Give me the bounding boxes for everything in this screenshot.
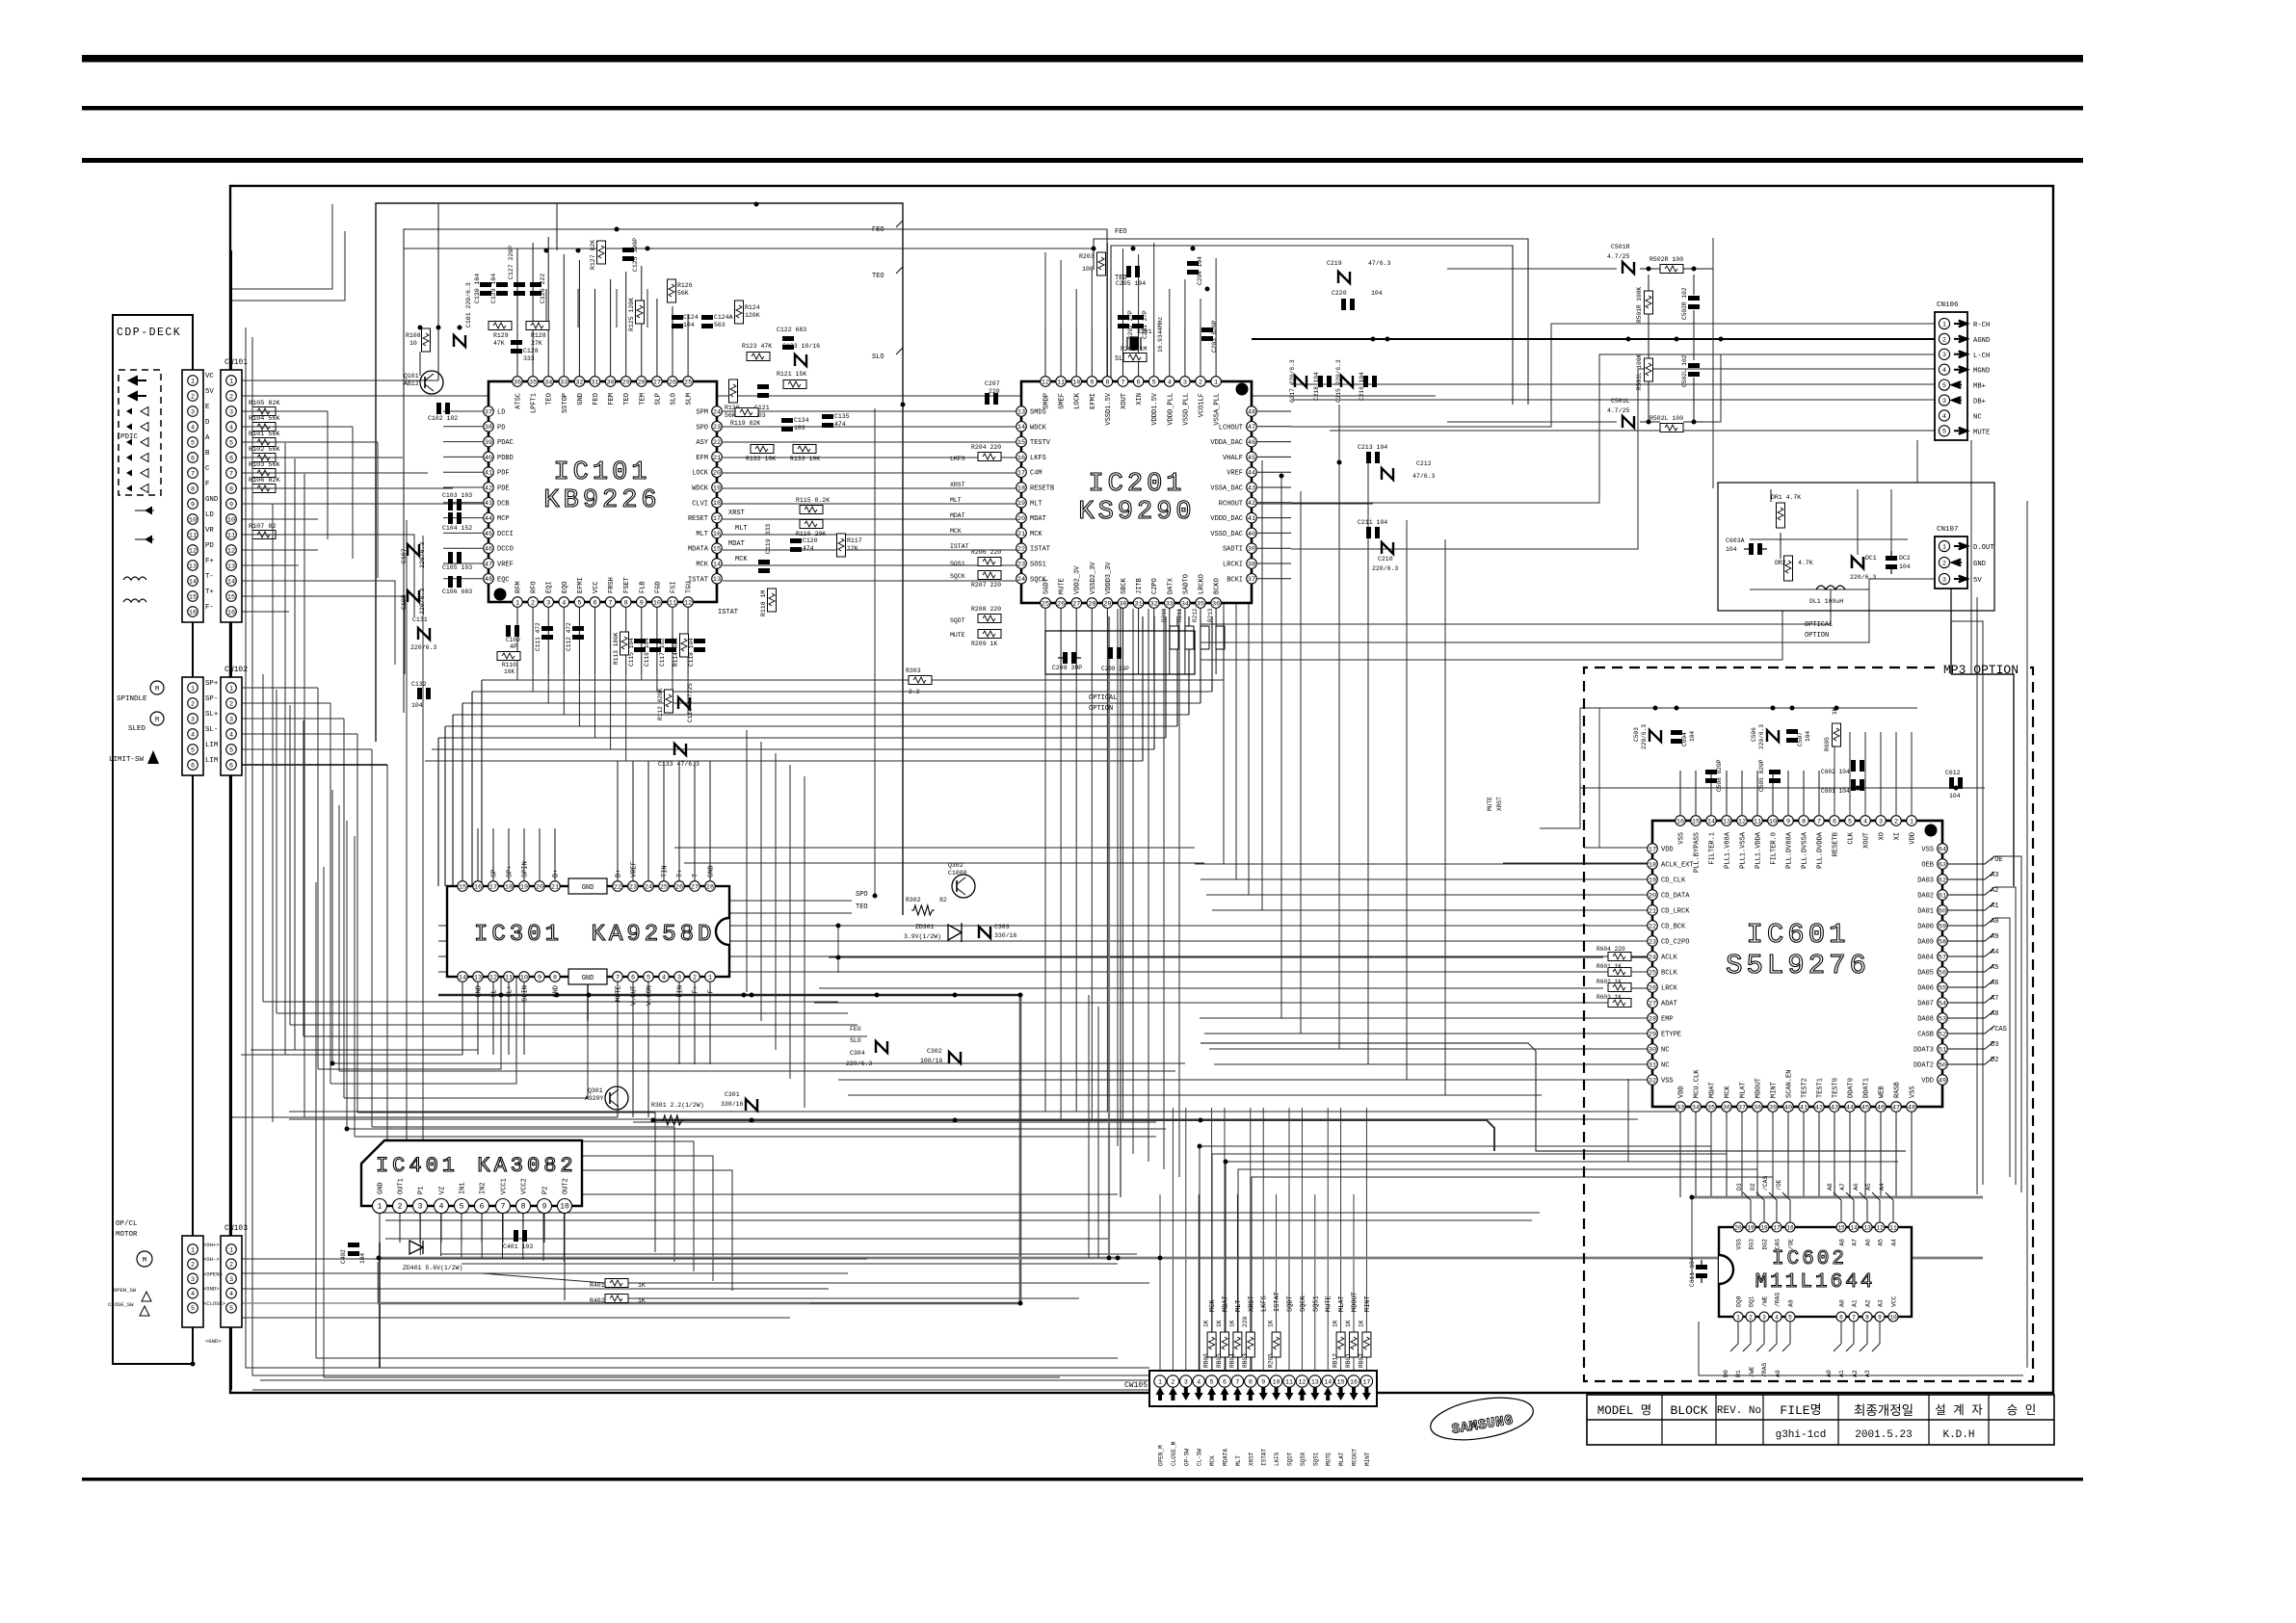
diode ZD301 [948, 925, 962, 940]
svg-text:VCC1: VCC1 [501, 1178, 509, 1194]
svg-text:16: 16 [1350, 1378, 1358, 1385]
svg-text:VDDD_PLL: VDDD_PLL [1167, 393, 1174, 426]
svg-text:C302: C302 [927, 1048, 942, 1055]
svg-text:C118 104: C118 104 [688, 638, 695, 667]
svg-text:33: 33 [1166, 600, 1174, 608]
wire IC301 top pins up [462, 828, 463, 880]
svg-text:8: 8 [1802, 818, 1806, 825]
wire IC601 right column to IC602 [1994, 856, 2021, 1192]
svg-text:8: 8 [1105, 379, 1109, 386]
resistor R132 10K [751, 445, 774, 454]
svg-text:TEO: TEO [856, 903, 868, 911]
svg-text:SQCK: SQCK [1300, 1295, 1307, 1312]
svg-text:FEO: FEO [1115, 228, 1127, 236]
svg-text:MDAT: MDAT [1709, 1082, 1717, 1098]
svg-text:C4M: C4M [1030, 470, 1042, 478]
svg-text:LKFS: LKFS [950, 456, 965, 462]
outer schematic frame [230, 186, 2053, 1393]
svg-text:R105 82K: R105 82K [249, 400, 281, 407]
svg-text:DDAT1: DDAT1 [1863, 1078, 1871, 1098]
wire CN101 R10x continuations [276, 410, 328, 412]
svg-text:4: 4 [191, 731, 195, 739]
svg-text:3: 3 [229, 716, 233, 723]
svg-text:38: 38 [1248, 561, 1255, 568]
capacitor C502R 102 [1688, 296, 1700, 301]
svg-text:CL-SW: CL-SW [1197, 1449, 1203, 1466]
svg-text:GND: GND [577, 393, 585, 406]
connector CN101 (dual column 16p) [182, 370, 203, 622]
svg-text:REV. No: REV. No [1717, 1405, 1761, 1417]
svg-text:T+: T+ [677, 870, 685, 877]
svg-text:LCHOUT: LCHOUT [1219, 424, 1243, 432]
svg-text:15: 15 [1017, 439, 1025, 447]
svg-text:43: 43 [485, 500, 492, 508]
svg-text:11: 11 [1754, 818, 1761, 825]
svg-text:DA05: DA05 [1917, 970, 1934, 978]
bus thick bottom long [289, 1111, 1676, 1113]
svg-text:A1: A1 [1991, 903, 1998, 910]
svg-text:12: 12 [1738, 818, 1746, 825]
svg-text:3: 3 [191, 408, 195, 416]
svg-text:MDAT: MDAT [728, 540, 745, 548]
PDIC photodiode array [129, 377, 146, 384]
transistor Q302 C1008 [952, 875, 975, 898]
svg-text:13: 13 [1017, 408, 1025, 416]
svg-text:1: 1 [191, 378, 195, 385]
svg-text:24: 24 [1017, 576, 1025, 584]
svg-text:SP+: SP+ [507, 865, 515, 877]
resistor R601 1K [1608, 968, 1631, 977]
svg-text:39: 39 [1248, 546, 1255, 554]
svg-text:VDD2_3V: VDD2_3V [1074, 565, 1082, 594]
resistor R114 68K [680, 634, 689, 657]
svg-text:1K: 1K [1345, 1320, 1352, 1327]
svg-text:SMEF: SMEF [1059, 393, 1067, 409]
svg-text:XO: XO [1879, 832, 1887, 840]
monitor diode D2 [145, 536, 152, 544]
svg-text:4: 4 [1942, 367, 1946, 374]
capacitor C102 102 [436, 403, 441, 414]
svg-text:A1: A1 [1838, 1370, 1845, 1377]
svg-text:220/6.3: 220/6.3 [1641, 724, 1648, 749]
svg-text:28: 28 [1649, 1015, 1656, 1023]
svg-text:6: 6 [229, 455, 233, 462]
capacitor C508 820P [1705, 770, 1717, 774]
svg-text:EQC: EQC [497, 576, 510, 584]
svg-text:C211 104: C211 104 [1358, 519, 1387, 526]
svg-text:C501R: C501R [1611, 244, 1630, 250]
svg-text:C131: C131 [412, 616, 428, 623]
svg-text:CW105: CW105 [1124, 1381, 1148, 1390]
svg-text:DA01: DA01 [1917, 908, 1934, 916]
svg-text:PDE: PDE [497, 485, 510, 493]
svg-text:16: 16 [474, 883, 482, 891]
svg-text:MB+: MB+ [1973, 383, 1986, 391]
resistor R502R 100 [1660, 265, 1683, 274]
svg-text:SPINDLE: SPINDLE [117, 695, 147, 703]
svg-text:56K: 56K [725, 412, 736, 419]
svg-text:ATSC: ATSC [515, 393, 523, 409]
svg-text:2: 2 [1942, 560, 1946, 566]
capacitor C105 103 [448, 552, 453, 563]
svg-text:17: 17 [1362, 1378, 1370, 1385]
capacitor C210 220/6.3 [1382, 542, 1393, 554]
svg-text:5: 5 [647, 974, 650, 982]
svg-text:A: A [205, 434, 210, 442]
svg-text:22: 22 [614, 883, 621, 891]
svg-text:VDD: VDD [1921, 1078, 1934, 1086]
resistor R107 82 [252, 531, 276, 539]
svg-text:5: 5 [229, 746, 233, 754]
svg-text:C611 104: C611 104 [1689, 1257, 1696, 1287]
svg-text:R116 20K: R116 20K [796, 531, 826, 537]
resistor R129 47K [488, 322, 512, 330]
svg-text:GND: GND [476, 985, 484, 998]
resistor R123 47K [747, 353, 770, 361]
CDP-DECK box [113, 315, 193, 1364]
svg-text:<OPEN>: <OPEN> [203, 1270, 223, 1277]
svg-text:R209 1K: R209 1K [971, 641, 997, 647]
svg-text:ISTAT: ISTAT [950, 543, 969, 550]
svg-text:DL1 100uH: DL1 100uH [1809, 598, 1843, 605]
svg-text:15: 15 [1837, 1224, 1845, 1231]
svg-text:V.OUT: V.OUT [631, 985, 639, 1006]
svg-text:7: 7 [191, 470, 195, 478]
svg-text:4.7/25: 4.7/25 [1607, 407, 1630, 414]
wire IC601 left horizontals [1195, 863, 1648, 865]
svg-text:2: 2 [1942, 336, 1946, 343]
svg-text:DATX: DATX [1167, 577, 1174, 594]
svg-text:P1: P1 [418, 1187, 426, 1194]
svg-text:CASB: CASB [1917, 1032, 1934, 1039]
svg-text:R102 56K: R102 56K [249, 446, 281, 454]
svg-text:R113 180K: R113 180K [613, 632, 620, 665]
capacitor C202 27P [1118, 315, 1129, 320]
svg-text:100: 100 [1082, 266, 1094, 273]
svg-text:CN107: CN107 [1937, 526, 1959, 534]
svg-text:2: 2 [398, 1202, 403, 1211]
wire bottom extra rails [376, 1193, 1118, 1195]
svg-text:3: 3 [1183, 379, 1187, 386]
capacitor C126 222 [530, 282, 541, 287]
svg-text:A3: A3 [1878, 1299, 1885, 1307]
svg-text:28: 28 [1088, 600, 1095, 608]
svg-text:6: 6 [480, 1202, 485, 1211]
svg-text:R207 220: R207 220 [971, 582, 1001, 589]
svg-text:GND: GND [205, 496, 219, 504]
wire CN105 verticals [1159, 1194, 1161, 1371]
svg-text:EQO: EQO [562, 581, 569, 593]
svg-text:1: 1 [515, 599, 519, 607]
resistor R124 120K [735, 301, 744, 324]
svg-text:T-: T- [693, 870, 700, 877]
svg-text:53: 53 [1939, 1015, 1946, 1023]
svg-text:설 계 자: 설 계 자 [1935, 1403, 1983, 1418]
svg-text:E: E [205, 404, 210, 411]
svg-text:VDDA_DAC: VDDA_DAC [1210, 439, 1243, 447]
svg-text:DCB: DCB [497, 500, 510, 508]
svg-text:NC: NC [1661, 1047, 1669, 1055]
svg-text:MUTE: MUTE [950, 632, 965, 639]
svg-text:C301: C301 [725, 1091, 740, 1098]
resistor R112 820K [665, 690, 673, 713]
svg-text:VSSA_PLL: VSSA_PLL [1214, 393, 1222, 426]
capacitor C216 104 [1363, 376, 1368, 387]
svg-text:g3hi-1cd: g3hi-1cd [1776, 1429, 1827, 1441]
svg-text:4: 4 [1942, 413, 1946, 420]
svg-text:R126: R126 [677, 282, 693, 289]
svg-text:7: 7 [229, 470, 233, 478]
svg-text:12: 12 [1876, 1224, 1884, 1231]
svg-text:MDAT: MDAT [1030, 515, 1046, 523]
svg-text:37: 37 [1738, 1104, 1746, 1112]
svg-text:FEO: FEO [872, 226, 884, 234]
svg-text:TEO: TEO [623, 393, 631, 406]
svg-text:BCKO: BCKO [1214, 578, 1222, 594]
IC101 block border box [376, 203, 903, 915]
svg-text:CLOSE_SW: CLOSE_SW [108, 1301, 134, 1308]
wire rails above IC401 [332, 1062, 1185, 1064]
svg-text:TEST0: TEST0 [1833, 1078, 1840, 1098]
svg-text:4: 4 [439, 1202, 444, 1211]
svg-text:EFMI: EFMI [577, 577, 585, 593]
svg-text:MOTOR: MOTOR [116, 1231, 138, 1239]
svg-text:XOUT: XOUT [1121, 393, 1128, 409]
svg-text:21: 21 [551, 883, 559, 891]
svg-text:MUTE: MUTE [1973, 429, 1990, 436]
svg-text:220: 220 [1242, 1317, 1249, 1327]
svg-text:TESTV: TESTV [1030, 439, 1051, 447]
svg-text:Q302: Q302 [948, 862, 963, 869]
svg-text:47/6.3: 47/6.3 [1368, 260, 1391, 267]
svg-text:<GND>: <GND> [203, 1286, 220, 1293]
capacitor C125 390P [622, 248, 634, 252]
svg-text:34: 34 [544, 379, 552, 386]
samsung logo [1427, 1391, 1536, 1447]
svg-text:7: 7 [1817, 818, 1821, 825]
svg-text:R204 220: R204 220 [971, 444, 1001, 451]
svg-text:1K: 1K [1228, 1320, 1235, 1327]
svg-text:220/6.3: 220/6.3 [419, 542, 426, 568]
wire bottom frame channel [380, 1357, 1118, 1359]
svg-text:VCC2: VCC2 [521, 1178, 529, 1194]
svg-text:12K: 12K [847, 545, 858, 552]
wire under-IC301 horizontals [263, 1001, 838, 1003]
svg-text:58: 58 [1939, 938, 1946, 946]
svg-text:C108: C108 [401, 594, 408, 610]
svg-text:SL-: SL- [205, 726, 218, 734]
svg-text:VCC: VCC [1891, 1296, 1898, 1307]
svg-text:R106 82K: R106 82K [249, 477, 281, 484]
svg-text:MUTE: MUTE [616, 985, 623, 1002]
svg-text:A6: A6 [1853, 1183, 1860, 1191]
bus thick 1243 [1692, 1196, 1983, 1199]
capacitor C204 104 [1187, 261, 1199, 266]
svg-text:VSSD_DAC: VSSD_DAC [1210, 531, 1243, 538]
svg-text:VSS: VSS [1678, 832, 1686, 845]
svg-text:C219: C219 [1327, 260, 1342, 267]
svg-text:19: 19 [1649, 877, 1656, 884]
svg-text:MCK: MCK [1725, 1086, 1732, 1098]
svg-text:C135: C135 [834, 413, 850, 420]
svg-text:12: 12 [684, 599, 692, 607]
svg-text:13: 13 [227, 563, 235, 570]
svg-text:CW101: CW101 [224, 358, 248, 367]
svg-text:13: 13 [474, 974, 482, 982]
capacitor C212 47/6.3 [1382, 468, 1393, 480]
svg-text:R101 56K: R101 56K [249, 431, 281, 438]
svg-text:R401: R401 [590, 1282, 605, 1289]
svg-text:LKFS: LKFS [1274, 1452, 1280, 1466]
svg-text:MINT: MINT [1771, 1082, 1779, 1098]
svg-text:10: 10 [520, 974, 528, 982]
svg-text:104: 104 [1805, 731, 1811, 742]
svg-text:DQ1: DQ1 [1749, 1296, 1755, 1307]
wire ic101 left pin stubs [443, 410, 483, 412]
svg-text:R502L 100: R502L 100 [1649, 415, 1683, 422]
svg-text:220/6.3: 220/6.3 [410, 644, 436, 651]
svg-text:5V: 5V [205, 388, 214, 396]
wire cn107 links [1201, 579, 1935, 642]
svg-text:C303: C303 [994, 924, 1010, 930]
svg-text:KA9258D: KA9258D [592, 922, 716, 948]
svg-text:M: M [155, 686, 159, 694]
svg-text:8: 8 [553, 974, 557, 982]
svg-text:13: 13 [1723, 818, 1730, 825]
svg-text:R601 1K: R601 1K [1597, 963, 1622, 970]
svg-text:LOCK: LOCK [692, 470, 709, 478]
svg-text:DR2: DR2 [1775, 560, 1786, 566]
svg-text:VSS: VSS [1661, 1078, 1674, 1086]
svg-text:C127 220P: C127 220P [508, 246, 515, 279]
svg-text:A6: A6 [1865, 1239, 1872, 1246]
svg-text:XOUT: XOUT [1863, 832, 1871, 849]
svg-text:VDDD3_3V: VDDD3_3V [1105, 562, 1113, 594]
resistor R208 220 [978, 615, 1001, 623]
svg-text:13: 13 [713, 576, 721, 584]
svg-text:MINT: MINT [1364, 1452, 1371, 1466]
wire mid bundle drops right [1223, 616, 1225, 680]
svg-text:C401 103: C401 103 [503, 1243, 533, 1250]
svg-text:C: C [205, 465, 210, 473]
svg-text:33: 33 [1676, 1104, 1684, 1112]
resistor R133 10K [793, 445, 816, 454]
resistor R128 27K [526, 322, 549, 330]
wire ic101 bottom pins to mid bundle [516, 674, 518, 680]
svg-text:RCHOUT: RCHOUT [1219, 500, 1243, 508]
svg-text:R605: R605 [1824, 737, 1831, 751]
svg-text:1: 1 [1910, 818, 1913, 825]
svg-text:C103 103: C103 103 [442, 492, 472, 499]
resistors R101-R106 [252, 407, 276, 416]
svg-text:SSTOP: SSTOP [562, 393, 569, 413]
svg-text:WDCK: WDCK [692, 485, 709, 493]
svg-text:C508 820P: C508 820P [1716, 759, 1723, 792]
svg-text:ISTAT: ISTAT [688, 576, 708, 584]
IC201 block top box [1094, 239, 1528, 405]
svg-text:10: 10 [227, 516, 235, 524]
svg-text:C207: C207 [985, 380, 1000, 387]
resistor R303 2.2 [909, 676, 932, 685]
svg-text:RFM: RFM [515, 581, 523, 593]
svg-text:SLO: SLO [671, 393, 678, 406]
svg-text:1: 1 [1214, 379, 1218, 386]
svg-text:Q101: Q101 [404, 373, 419, 380]
coil F- [123, 599, 146, 602]
svg-text:C104 152: C104 152 [442, 525, 472, 532]
svg-text:MUTE: MUTE [1326, 1296, 1333, 1312]
svg-text:KS9290: KS9290 [1078, 498, 1195, 527]
svg-text:1: 1 [191, 685, 195, 693]
capacitor C215 220/6.3 [1341, 376, 1353, 387]
svg-text:16: 16 [1017, 455, 1025, 462]
svg-text:6: 6 [1839, 1314, 1843, 1321]
top rule bar 2 [82, 106, 2083, 111]
capacitor C203 820P [1201, 327, 1213, 332]
svg-text:SPO: SPO [696, 424, 708, 432]
svg-text:34: 34 [1692, 1104, 1700, 1112]
capacitor C128 333 [511, 340, 522, 345]
svg-text:8: 8 [521, 1202, 526, 1211]
svg-text:14: 14 [1850, 1224, 1858, 1231]
svg-text:4: 4 [1863, 818, 1867, 825]
svg-text:EFM: EFM [696, 455, 708, 462]
wire mid horizontal bundle [482, 679, 1224, 681]
wire IC201 bottom pins down [1044, 609, 1046, 674]
capacitor C130 104 [480, 282, 491, 287]
svg-text:14: 14 [713, 561, 721, 568]
transistor Q301 A928Y [605, 1086, 628, 1110]
svg-text:R303: R303 [906, 668, 921, 674]
svg-text:R103 56K: R103 56K [249, 461, 281, 469]
capacitor C201 27P [1132, 315, 1144, 320]
svg-text:11: 11 [1057, 379, 1065, 386]
svg-text:SLIN: SLIN [522, 985, 530, 1002]
wire ic101 top caps [545, 289, 547, 327]
svg-text:VDD: VDD [1678, 1086, 1686, 1098]
svg-text:VCO1LF: VCO1LF [1199, 393, 1206, 417]
svg-text:C204 104: C204 104 [1197, 256, 1203, 285]
svg-text:5: 5 [577, 599, 581, 607]
capacitor C103 103 [448, 499, 453, 510]
svg-text:ETYPE: ETYPE [1661, 1032, 1681, 1039]
svg-text:ACLK: ACLK [1661, 955, 1678, 962]
resistor DR2 4.7K [1784, 556, 1793, 581]
svg-text:PDF: PDF [497, 470, 510, 478]
IC101 inner box 2 [404, 229, 1107, 713]
svg-text:SPO: SPO [856, 891, 868, 899]
svg-text:R206 220: R206 220 [971, 549, 1001, 556]
svg-text:3: 3 [229, 408, 233, 416]
svg-text:T-: T- [205, 573, 214, 581]
svg-text:220: 220 [989, 388, 1000, 395]
resistor R302 82 [911, 905, 935, 915]
connector CN105 (17p) [1149, 1371, 1377, 1406]
capacitor C217 220/6.3 [1295, 376, 1306, 387]
svg-text:VZ: VZ [439, 1187, 447, 1194]
capacitor C604 104 [1671, 730, 1682, 735]
svg-text:22: 22 [1649, 923, 1656, 930]
svg-text:C105 103: C105 103 [442, 564, 472, 571]
capacitor C218 104 [1318, 376, 1323, 387]
svg-text:VSSD2_3V: VSSD2_3V [1090, 562, 1097, 594]
svg-text:100/16: 100/16 [920, 1058, 943, 1064]
svg-text:22: 22 [1017, 546, 1025, 554]
svg-text:CD_CLK: CD_CLK [1661, 877, 1686, 885]
svg-text:P2: P2 [542, 1187, 550, 1194]
svg-text:9: 9 [229, 501, 233, 509]
svg-text:104: 104 [1726, 546, 1737, 553]
